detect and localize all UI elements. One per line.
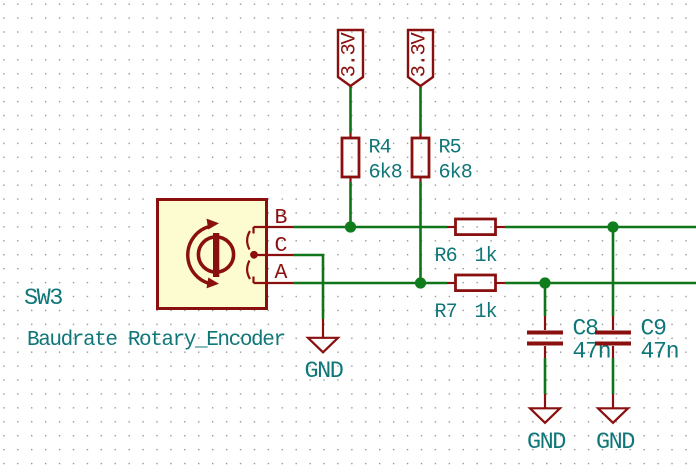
junction dot on B-line at R4 — [345, 221, 356, 232]
svg-text:SW3: SW3 — [24, 285, 62, 312]
resistor R6 — [447, 219, 505, 235]
encoder contact arc upper — [247, 231, 250, 250]
pin A — [254, 282, 294, 284]
encoder knob circle — [198, 237, 233, 272]
rotation arrowhead top — [207, 219, 220, 230]
ground symbol below C9 — [598, 394, 628, 423]
contact hook pin B — [252, 227, 254, 234]
encoder shaft bar — [213, 233, 219, 277]
junction dot on A-line at C8 — [539, 277, 550, 288]
svg-text:R6: R6 — [435, 245, 457, 268]
power flag 3.3V (right) — [408, 30, 433, 86]
svg-text:47n: 47n — [641, 339, 679, 365]
wire junction on B-line down to C9 — [612, 227, 615, 316]
resistor R4 — [342, 133, 359, 182]
wire A-line from encoder pin to R7 — [293, 282, 447, 285]
wire R5 down to A-line junction — [419, 182, 422, 283]
resistor R5 — [412, 133, 429, 182]
svg-text:6k8: 6k8 — [369, 162, 402, 185]
svg-text:GND: GND — [305, 358, 343, 385]
encoder contact arc lower — [247, 261, 250, 280]
wire B-line from encoder pin to R6 — [293, 226, 447, 229]
svg-text:3.3V: 3.3V — [409, 32, 432, 78]
wire C-line horizontal — [293, 255, 323, 319]
wire R4 down to B-line junction — [349, 182, 352, 227]
svg-text:1k: 1k — [475, 245, 497, 268]
svg-text:R7: R7 — [435, 301, 457, 324]
rotation arrowhead bottom — [207, 278, 220, 289]
wire C9 bottom to GND — [612, 358, 615, 394]
capacitor C9 — [595, 316, 631, 358]
svg-text:R5: R5 — [439, 137, 461, 160]
wire 3.3V flag2 down to R5 — [419, 86, 422, 133]
svg-text:R4: R4 — [369, 137, 391, 160]
svg-text:3.3V: 3.3V — [339, 32, 362, 78]
encoder common contact dot — [250, 251, 258, 259]
wire A-line from R7 to right edge — [505, 282, 696, 285]
junction dot on A-line at R5 — [415, 277, 426, 288]
svg-text:A: A — [275, 261, 288, 285]
wire 3.3V flag1 down to R4 — [349, 86, 352, 133]
svg-text:GND: GND — [596, 429, 634, 456]
pin B — [254, 226, 294, 228]
wire junction on A-line down to C8 — [544, 283, 547, 316]
encoder rotation arc — [188, 226, 211, 284]
resistor R7 — [447, 275, 505, 291]
svg-text:6k8: 6k8 — [439, 162, 472, 185]
junction dot on B-line at C9 — [607, 221, 618, 232]
ground symbol below C8 — [530, 394, 560, 423]
svg-text:GND: GND — [527, 429, 565, 456]
svg-text:B: B — [275, 206, 288, 230]
wire B-line from R6 to right edge — [505, 226, 696, 229]
wire C8 bottom to GND — [544, 358, 547, 394]
pin C — [258, 254, 294, 256]
svg-text:C: C — [275, 234, 287, 258]
ground symbol below pin C — [308, 319, 338, 352]
contact hook pin A — [252, 277, 254, 284]
rotary encoder SW3 body — [158, 200, 267, 309]
svg-text:Baudrate Rotary_Encoder: Baudrate Rotary_Encoder — [27, 329, 285, 352]
capacitor C8 — [527, 316, 563, 358]
power flag 3.3V (left) — [338, 30, 363, 86]
svg-text:1k: 1k — [475, 301, 497, 324]
